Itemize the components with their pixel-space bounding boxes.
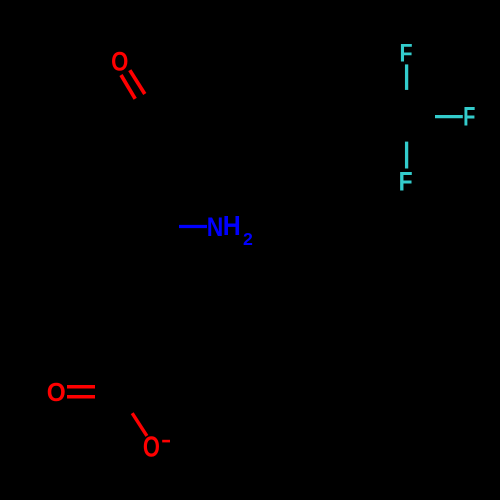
svg-text:O: O	[47, 378, 66, 407]
svg-text:O: O	[111, 48, 128, 77]
atom N amine label letter N	[207, 212, 224, 242]
atom O3 carboxylate anionic oxygen label	[143, 432, 160, 463]
bond C=O ketone double bond line 1 (oxygen half)	[121, 75, 135, 99]
atom N amine label letter H	[223, 210, 241, 241]
svg-text:F: F	[463, 103, 475, 132]
svg-text:H: H	[223, 210, 241, 241]
svg-text:2: 2	[243, 229, 253, 249]
atom O2 carboxylate double-bonded oxygen label	[47, 378, 66, 407]
bond C-F1 vertical bond (fluorine half)	[405, 64, 408, 90]
atom O1 ketone oxygen label	[111, 48, 128, 77]
atom F3 bottom fluorine label	[399, 168, 413, 197]
atom F2 right fluorine label	[463, 103, 475, 132]
bond C=O ketone double bond line 2 (oxygen half)	[130, 70, 145, 94]
svg-text:N: N	[207, 212, 224, 242]
svg-text:O: O	[143, 432, 160, 463]
bond C-F3 vertical bond (fluorine half)	[405, 142, 408, 169]
charge minus sign on O3	[162, 440, 170, 443]
atom N amine label subscript 2	[243, 229, 253, 249]
bond C=O carboxylate double bond bottom line (oxygen half)	[67, 395, 95, 399]
bond C-O anionic oxygen diagonal bond (oxygen half)	[132, 413, 147, 436]
svg-text:F: F	[399, 168, 413, 197]
atom F1 top fluorine label	[399, 39, 412, 67]
bond C-F2 horizontal bond (fluorine half)	[435, 115, 463, 118]
svg-text:F: F	[399, 39, 412, 67]
bond C=O carboxylate double bond top line (oxygen half)	[67, 385, 95, 389]
bond C-N amine bond (nitrogen half)	[179, 225, 207, 228]
